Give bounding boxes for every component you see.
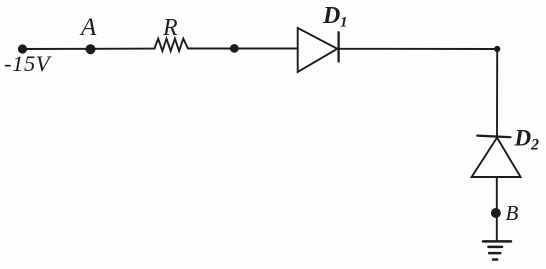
diode D2 cathode bar bbox=[477, 136, 510, 138]
node A dot bbox=[86, 44, 96, 54]
svg-text:B: B bbox=[506, 201, 519, 225]
wire: resistor to diode D1 bbox=[188, 48, 298, 50]
svg-text:D: D bbox=[514, 125, 532, 150]
svg-text:R: R bbox=[162, 15, 178, 41]
node B dot bbox=[491, 208, 501, 218]
wire: D1 to top-right corner bbox=[339, 48, 498, 50]
junction dot top-right corner bbox=[494, 46, 500, 52]
svg-text:2: 2 bbox=[530, 137, 539, 154]
wire: right vertical down to D2 bbox=[496, 49, 498, 138]
ground bar 3 bbox=[489, 252, 500, 255]
diode D1 cathode bar bbox=[337, 32, 339, 61]
ground bar 2 bbox=[489, 246, 503, 249]
svg-text:A: A bbox=[79, 14, 97, 41]
diode D1 triangle bbox=[298, 28, 338, 72]
resistor R bbox=[155, 39, 189, 51]
ground bar 4 bbox=[493, 258, 497, 261]
svg-text:D: D bbox=[322, 3, 340, 29]
svg-text:-15V: -15V bbox=[4, 51, 52, 76]
terminal dot -15V bbox=[18, 44, 27, 53]
diode D2 triangle bbox=[472, 138, 521, 177]
wire: -15V terminal to resistor bbox=[23, 48, 155, 50]
wire: D2 to ground bbox=[496, 177, 498, 241]
ground bar 1 bbox=[483, 240, 511, 243]
svg-text:1: 1 bbox=[340, 15, 348, 31]
node dot after resistor bbox=[230, 44, 239, 53]
